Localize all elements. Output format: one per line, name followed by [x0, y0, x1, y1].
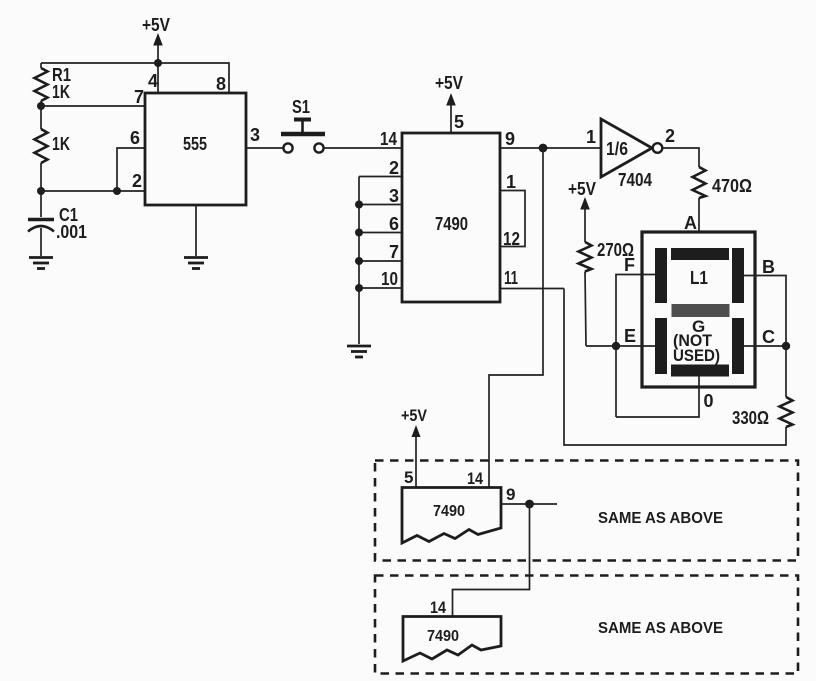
svg-text:14: 14 [430, 598, 446, 617]
wire pin 3 output [246, 147, 283, 149]
ground (7490 bus) [347, 346, 371, 357]
node C label [762, 327, 775, 347]
wire ground bus [358, 177, 360, 345]
resistor 270ohm [579, 240, 635, 272]
wire C1 to ground [40, 228, 42, 256]
pin 2 stub [359, 176, 402, 178]
power +5V (555 supply) [142, 15, 170, 63]
wire segment D [616, 376, 699, 417]
svg-text:E: E [624, 326, 636, 346]
svg-text:5: 5 [454, 112, 464, 132]
capacitor C1 .001 [28, 205, 87, 242]
node +5V junction [154, 59, 162, 67]
wire segment B [744, 276, 786, 347]
svg-text:+5V: +5V [568, 179, 596, 199]
power +5V (7490 pin 5) [435, 73, 463, 133]
pin 6 label [130, 128, 140, 148]
segment C bar [732, 318, 744, 374]
svg-text:4: 4 [148, 71, 158, 91]
node bus pin7 [355, 257, 363, 265]
svg-text:14: 14 [467, 469, 483, 488]
pin 3 label [250, 125, 260, 145]
svg-text:7: 7 [134, 87, 144, 107]
wire rail mid [40, 106, 42, 129]
pin 10 label [381, 269, 398, 289]
wire C junction to 330 [785, 346, 787, 397]
pin 10 stub [359, 287, 402, 289]
pin 9 label [505, 129, 515, 149]
node C junction [782, 342, 790, 350]
wire pin 2 [41, 190, 145, 192]
svg-text:1: 1 [586, 127, 596, 147]
wire segment C [744, 345, 786, 347]
svg-text:330Ω: 330Ω [732, 408, 769, 428]
svg-text:10: 10 [381, 269, 398, 289]
pin 7 label [134, 87, 144, 107]
wire S1 to pin 14 [324, 147, 402, 149]
node bus pin6 [355, 229, 363, 237]
svg-text:8: 8 [216, 74, 226, 94]
power +5V (segment supply) [568, 179, 596, 242]
svg-text:0: 0 [704, 391, 714, 411]
pin 6 stub [359, 232, 402, 234]
dashed box (3rd digit, same as above) [375, 576, 798, 674]
svg-text:SAME AS ABOVE: SAME AS ABOVE [598, 620, 723, 637]
resistor R1 1K [35, 65, 72, 102]
svg-text:+5V: +5V [142, 15, 170, 35]
node bus pin3 [355, 201, 363, 209]
svg-text:A: A [684, 213, 697, 233]
svg-text:+5V: +5V [401, 406, 428, 425]
IC 555 timer U1 [145, 93, 246, 205]
pin 1 label [506, 172, 516, 192]
pin 3 stub [359, 204, 402, 206]
pin 4 label [148, 71, 158, 91]
wire 7404 output [663, 148, 700, 167]
wire segment E [586, 345, 655, 347]
node pin7 junction [37, 102, 45, 110]
svg-text:470Ω: 470Ω [712, 176, 752, 196]
svg-text:7490: 7490 [435, 214, 468, 234]
svg-text:7: 7 [389, 242, 399, 262]
node pin 9 branch [539, 144, 548, 153]
pin 14 label [380, 129, 397, 149]
node F label [624, 255, 635, 275]
wire pin 4 drop [157, 63, 159, 93]
wire to C1 [40, 191, 42, 217]
svg-text:12: 12 [503, 229, 520, 249]
segment G bar (gray, not used) [672, 304, 730, 317]
node E junction [612, 342, 620, 350]
wire 270 to E [585, 272, 586, 347]
svg-text:7404: 7404 [618, 170, 652, 190]
pin 6 label (7490) [389, 214, 399, 234]
svg-text:.001: .001 [56, 222, 87, 242]
wire R1 to node [40, 101, 42, 106]
pin 3 label (7490) [389, 186, 399, 206]
IC 7490 counter U2 [402, 133, 500, 302]
svg-text:SAME AS ABOVE: SAME AS ABOVE [598, 510, 723, 527]
svg-text:5: 5 [404, 468, 413, 487]
pin 14 label (3rd 7490) [430, 598, 446, 617]
svg-text:555: 555 [183, 134, 207, 154]
svg-text:F: F [624, 255, 635, 275]
svg-text:1: 1 [506, 172, 516, 192]
node bus pin10 [355, 284, 363, 292]
wire pin 6 stub [117, 148, 145, 191]
wire top rail to pin 8 [41, 63, 229, 93]
wire 470 to segment A [698, 198, 700, 249]
svg-text:S1: S1 [292, 97, 310, 117]
wire pin 9 (lower 7490) [501, 503, 557, 505]
text SAME AS ABOVE (box 1) [598, 510, 723, 527]
resistor 470ohm [693, 167, 753, 198]
svg-text:+5V: +5V [435, 73, 463, 93]
svg-text:2: 2 [132, 171, 142, 191]
display L1 outline [642, 232, 755, 387]
node B label [762, 257, 775, 277]
node E label [624, 326, 636, 346]
display label (NOT [673, 331, 713, 350]
pin 8 label [216, 74, 226, 94]
svg-text:1K: 1K [52, 82, 70, 102]
ground (555) [184, 258, 208, 269]
segment F bar [655, 248, 667, 303]
svg-text:9: 9 [505, 129, 515, 149]
node pin6 drop junction [113, 187, 121, 195]
segment B bar [732, 248, 744, 303]
svg-text:USED): USED) [673, 346, 720, 365]
svg-text:1/6: 1/6 [606, 139, 628, 159]
svg-text:9: 9 [506, 485, 515, 504]
svg-text:2: 2 [389, 158, 399, 178]
svg-text:6: 6 [389, 214, 399, 234]
node pin2 left junction [37, 187, 45, 195]
svg-text:C: C [762, 327, 775, 347]
pin 12 label [503, 229, 520, 249]
svg-text:2: 2 [665, 126, 675, 146]
pin 2 label (7404) [665, 126, 675, 146]
power +5V (lower 7490) [401, 406, 428, 487]
pin 1 label (7404) [586, 127, 596, 147]
wire pin 9 to inverter [500, 147, 601, 149]
svg-text:11: 11 [504, 268, 518, 288]
svg-text:7490: 7490 [427, 628, 459, 645]
pin 7 label (7490) [389, 242, 399, 262]
display label G [692, 317, 705, 336]
ground (C1) [29, 258, 53, 269]
pin 5 label [454, 112, 464, 132]
svg-text:B: B [762, 257, 775, 277]
pin 2 label [132, 171, 142, 191]
svg-text:14: 14 [380, 129, 397, 149]
dashed box (2nd digit, same as above) [375, 461, 798, 561]
segment A bar [671, 248, 729, 260]
wire rail lower [40, 163, 42, 191]
wire 330 to pin 11 [564, 289, 786, 446]
svg-text:7490: 7490 [433, 503, 465, 520]
node D label (0) [704, 391, 714, 411]
wire left rail top [40, 63, 42, 68]
IC 7490 (2nd digit, torn) [402, 488, 501, 544]
pin 2 label [389, 158, 399, 178]
wire pin 9 branch to lower 7490 pin 14 [489, 148, 543, 487]
svg-text:3: 3 [389, 186, 399, 206]
switch S1 [281, 97, 325, 153]
pin 9 label (lower 7490) [506, 485, 515, 504]
svg-text:L1: L1 [690, 268, 708, 288]
svg-text:6: 6 [130, 128, 140, 148]
wire segment F [616, 275, 655, 418]
display label USED) [673, 346, 720, 365]
pin 5 label (lower 7490) [404, 468, 413, 487]
wire pin 11 [500, 288, 564, 290]
pin 11 label [504, 268, 518, 288]
wire to 3rd 7490 pin 14 [453, 504, 530, 617]
resistor 330ohm [732, 397, 793, 428]
wire 555 ground stem [195, 205, 197, 256]
pin 1-12 feedback bracket [500, 191, 525, 247]
segment D bar [671, 365, 729, 377]
node pin 9 branch (lower) [525, 500, 534, 509]
inverter U3 7404 [601, 119, 662, 190]
text SAME AS ABOVE (box 2) [598, 620, 723, 637]
svg-text:1K: 1K [52, 134, 70, 154]
wire pin 7 [41, 105, 145, 107]
resistor 1K (lower) [35, 129, 71, 163]
pin 7 stub [359, 260, 402, 262]
pin 14 label (lower 7490) [467, 469, 483, 488]
node A label [684, 213, 697, 233]
svg-text:3: 3 [250, 125, 260, 145]
IC 7490 (3rd digit, torn) [403, 617, 501, 662]
segment E bar [655, 318, 667, 374]
display label L1 [690, 268, 708, 288]
